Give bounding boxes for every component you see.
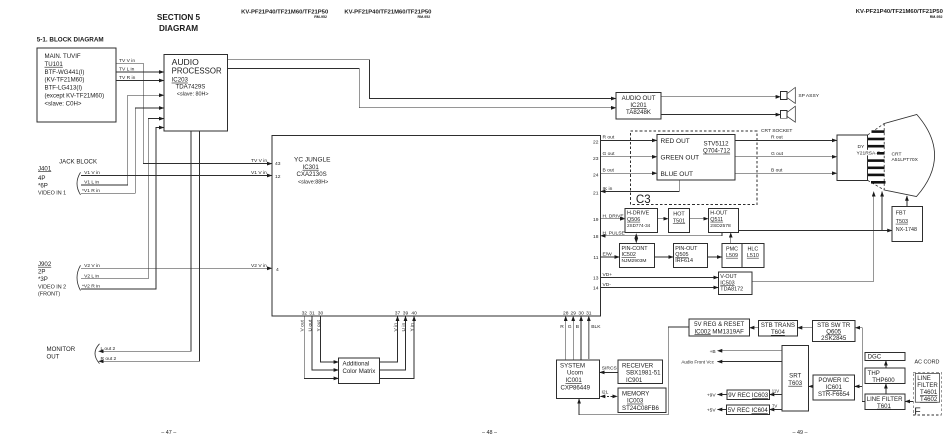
- deflection yoke DY box: [837, 135, 868, 181]
- wire R out 2 from audio processor: [99, 131, 200, 361]
- STB trans T604 box: [759, 320, 798, 335]
- svg-text:C3: C3: [636, 194, 651, 206]
- SRT T603 box: [782, 346, 809, 412]
- svg-text:<slave: C0H>: <slave: C0H>: [45, 100, 82, 107]
- svg-text:U out: U out: [307, 319, 313, 331]
- system Ucom IC001 box: [556, 360, 599, 399]
- svg-text:– 47 –: – 47 –: [161, 430, 176, 436]
- svg-text:TA8248K: TA8248K: [626, 109, 651, 116]
- svg-text:T4601: T4601: [920, 389, 938, 396]
- svg-text:H-DRIVE: H-DRIVE: [627, 211, 650, 217]
- wire H-DRIVE to HOT: [658, 218, 669, 220]
- svg-text:39: 39: [403, 311, 409, 317]
- 5V reg and reset IC002 box: [689, 319, 749, 336]
- wire B out to CRT: [735, 172, 837, 174]
- wire color matrix to Y in pin 40: [380, 316, 415, 378]
- wire BLK arrowhead: [588, 316, 590, 321]
- svg-text:31: 31: [309, 311, 315, 317]
- svg-text:PIN-CONT: PIN-CONT: [622, 246, 649, 252]
- THP box: [865, 368, 905, 384]
- svg-text:CRT: CRT: [892, 152, 902, 158]
- svg-text:G: G: [568, 324, 572, 330]
- svg-text:A51LPT70X: A51LPT70X: [892, 157, 919, 163]
- svg-text:Y out: Y out: [316, 320, 322, 332]
- wire STB trans to 5V reg: [749, 327, 758, 329]
- 5V regulator IC604 box: [726, 405, 769, 415]
- wire SRT +B: [717, 350, 782, 352]
- svg-text:G out: G out: [771, 151, 784, 157]
- svg-text:NX-1748: NX-1748: [896, 227, 917, 233]
- memory IC003 box: [618, 388, 666, 413]
- svg-text:F: F: [914, 405, 920, 417]
- svg-text:29: 29: [570, 310, 576, 316]
- svg-text:V1 V in: V1 V in: [251, 170, 267, 176]
- svg-text:IC203: IC203: [172, 77, 189, 84]
- svg-text:LINE: LINE: [917, 375, 931, 382]
- wire R out pin 22 to RED OUT: [601, 139, 658, 141]
- svg-text:IC002 MM1319AF: IC002 MM1319AF: [694, 328, 744, 335]
- wire V1 V in to YC pin 12: [81, 175, 272, 177]
- wire THP to DGC: [885, 361, 887, 369]
- V-OUT IC503 box: [718, 272, 752, 295]
- svg-text:MONITOR: MONITOR: [47, 346, 76, 353]
- wire VD+ pin 13 to V-OUT: [601, 277, 719, 279]
- svg-text:B: B: [576, 324, 579, 330]
- svg-text:T4602: T4602: [920, 396, 938, 403]
- wire E/W pin 11 to PIN-CONT: [601, 256, 620, 258]
- wire V1 R in to audio processor: [81, 108, 164, 193]
- svg-text:NJM2903M: NJM2903M: [622, 258, 647, 264]
- svg-text:37: 37: [395, 311, 401, 317]
- power IC IC601 box: [813, 375, 854, 400]
- svg-text:J902: J902: [38, 261, 52, 268]
- svg-text:AUDIO OUT: AUDIO OUT: [622, 95, 656, 102]
- wire TV L in to audio processor: [116, 71, 164, 73]
- svg-text:RECEIVER: RECEIVER: [622, 362, 654, 369]
- PIN-CONT IC502 box: [620, 244, 655, 268]
- wire 5V out: [717, 409, 726, 411]
- audio processor IC203 box: [164, 55, 228, 132]
- HLC L510 box: [742, 244, 764, 268]
- wire L out 2 from audio processor: [99, 131, 192, 351]
- svg-text:14: 14: [593, 286, 599, 292]
- connector J902 bracket: [77, 265, 81, 290]
- svg-text:Q511: Q511: [710, 217, 723, 223]
- svg-text:SBX1981-51: SBX1981-51: [626, 370, 661, 377]
- wire TV V in from tuner to YC pin 43: [116, 63, 272, 163]
- svg-text:13: 13: [593, 276, 599, 282]
- svg-text:BTF-LG413(I): BTF-LG413(I): [45, 85, 83, 92]
- svg-text:CXP86449: CXP86449: [561, 384, 591, 391]
- wire H-OUT to FBT: [738, 230, 892, 232]
- svg-text:*6P: *6P: [38, 182, 48, 189]
- svg-text:RM-952: RM-952: [418, 15, 431, 19]
- svg-text:9V REC IC603: 9V REC IC603: [728, 392, 769, 399]
- svg-text:J401: J401: [38, 165, 52, 172]
- svg-text:FILTER: FILTER: [917, 382, 938, 389]
- wire junction up to CRT from H-OUT line: [881, 192, 883, 231]
- svg-text:T604: T604: [771, 329, 786, 336]
- wire branch to power IC: [855, 385, 863, 387]
- svg-text:– 48 –: – 48 –: [482, 430, 497, 436]
- svg-text:THP: THP: [868, 370, 880, 377]
- svg-text:+9V: +9V: [707, 393, 717, 399]
- wire power IC to SRT: [809, 385, 814, 387]
- wire V out pin 32 to color matrix: [304, 316, 338, 378]
- svg-text:SECTION 5: SECTION 5: [157, 13, 201, 22]
- wire STB SW TR to STB trans: [797, 327, 812, 329]
- PMC L509 box: [722, 244, 742, 268]
- speaker 2: [781, 106, 796, 122]
- FBT T503 box: [892, 206, 923, 241]
- wire FBT to CRT: [906, 196, 908, 207]
- svg-text:H-OUT: H-OUT: [710, 211, 728, 217]
- svg-text:IC901: IC901: [626, 377, 643, 384]
- svg-text:21: 21: [593, 190, 599, 196]
- wire B from system to pin 30: [580, 316, 582, 360]
- svg-text:HOT: HOT: [673, 212, 685, 218]
- wire V2 R in to audio processor: [81, 128, 164, 290]
- svg-text:DY: DY: [858, 144, 866, 150]
- AC line filter inner box: [915, 374, 939, 403]
- svg-text:7V: 7V: [772, 404, 777, 409]
- wire H-DRIVE to PIN-CONT double arrow: [635, 234, 637, 243]
- CRT gun stripes: [868, 130, 886, 183]
- wire V2 L in to audio processor: [81, 119, 164, 279]
- HOT T501 box: [668, 209, 689, 233]
- wire U out pin 31 to color matrix: [312, 316, 339, 370]
- wire SRT to 5V reg IC604: [769, 409, 782, 411]
- svg-text:DGC: DGC: [868, 354, 882, 361]
- wire color matrix to U in pin 39: [380, 316, 406, 370]
- wire SRT to 9V reg: [769, 394, 782, 396]
- svg-text:IC502: IC502: [622, 252, 636, 258]
- svg-text:11V: 11V: [772, 389, 779, 394]
- wire V1 L in to audio processor: [81, 95, 164, 185]
- RGB out block Q704-712 box: [657, 135, 735, 180]
- svg-text:30: 30: [578, 310, 584, 316]
- svg-text:DIAGRAM: DIAGRAM: [159, 24, 198, 33]
- wire memory to system dashed double arrow: [600, 395, 617, 397]
- wire audio processor to audio out R: [228, 69, 617, 108]
- svg-text:POWER IC: POWER IC: [818, 377, 849, 384]
- svg-text:Audio Front Vcc: Audio Front Vcc: [681, 360, 714, 365]
- svg-text:PIN-OUT: PIN-OUT: [675, 246, 698, 252]
- YC jungle IC301 box: [272, 136, 601, 317]
- svg-text:43: 43: [275, 161, 281, 167]
- wire H drive pin 19 to H-DRIVE block: [601, 218, 626, 220]
- svg-text:AC CORD: AC CORD: [915, 360, 940, 366]
- svg-text:Q704-712: Q704-712: [703, 148, 731, 155]
- svg-text:2P: 2P: [38, 268, 45, 275]
- svg-text:T503: T503: [896, 219, 908, 225]
- svg-text:BLK: BLK: [591, 324, 601, 330]
- svg-text:FBT: FBT: [896, 211, 907, 217]
- svg-text:JACK BLOCK: JACK BLOCK: [59, 158, 97, 165]
- svg-text:<slave:88H>: <slave:88H>: [298, 179, 328, 185]
- svg-text:IRF614: IRF614: [675, 258, 693, 264]
- wire V-OUT to CRT deflection: [752, 192, 874, 282]
- wire G out to CRT: [735, 156, 837, 158]
- svg-text:RED OUT: RED OUT: [661, 138, 690, 145]
- svg-text:12: 12: [275, 174, 281, 180]
- svg-text:IC201: IC201: [630, 102, 647, 109]
- svg-text:5V REC IC604: 5V REC IC604: [728, 407, 769, 414]
- wire line filter to THP: [885, 384, 887, 394]
- AC cord dashed box: [913, 372, 941, 415]
- svg-text:OUT: OUT: [47, 353, 60, 360]
- svg-text:T601: T601: [877, 403, 892, 410]
- svg-text:R out: R out: [603, 135, 615, 141]
- svg-text:CXA2130S: CXA2130S: [297, 171, 327, 178]
- svg-text:PMC: PMC: [726, 246, 738, 252]
- svg-text:STV5112: STV5112: [704, 141, 730, 148]
- wire B out pin 24 to BLUE OUT: [601, 172, 658, 174]
- svg-text:31: 31: [586, 310, 592, 316]
- wire color matrix to V in pin 37: [380, 316, 398, 362]
- svg-text:IC001: IC001: [566, 377, 583, 384]
- svg-text:R out: R out: [771, 135, 783, 141]
- svg-text:30: 30: [318, 311, 324, 317]
- wire audio out to speaker 1: [661, 96, 781, 98]
- svg-text:+B: +B: [710, 349, 716, 355]
- svg-text:MEMORY: MEMORY: [622, 390, 649, 397]
- speaker 1: [781, 87, 796, 103]
- wire IK in from RGB out block to pin 21: [601, 180, 680, 192]
- svg-text:I2L: I2L: [602, 390, 609, 396]
- svg-text:SIRCS: SIRCS: [602, 366, 618, 372]
- wire V2 V in to YC pin 4: [81, 267, 272, 269]
- svg-text:HLC: HLC: [748, 246, 759, 252]
- svg-text:24: 24: [593, 172, 599, 178]
- svg-text:Y21RSA-S: Y21RSA-S: [857, 151, 881, 157]
- svg-text:TV V in: TV V in: [251, 158, 267, 164]
- svg-text:R: R: [560, 324, 564, 330]
- wire line filter to STB SW TR: [855, 328, 865, 402]
- svg-text:IC301: IC301: [303, 164, 320, 171]
- CRT socket dashed box: [631, 131, 758, 205]
- svg-text:BLUE OUT: BLUE OUT: [661, 171, 694, 178]
- svg-text:YC JUNGLE: YC JUNGLE: [294, 157, 331, 164]
- svg-text:SYSTEM: SYSTEM: [560, 362, 585, 369]
- svg-text:V-OUT: V-OUT: [720, 274, 737, 280]
- svg-text:THP600: THP600: [872, 377, 895, 384]
- wire VD- pin 14 to V-OUT: [601, 287, 719, 289]
- CRT bell outline: [884, 115, 934, 197]
- svg-text:MAIN. TUVIF: MAIN. TUVIF: [45, 53, 81, 60]
- wire audio processor to audio out L: [228, 60, 617, 99]
- svg-text:5V REG & RESET: 5V REG & RESET: [694, 321, 744, 328]
- svg-text:G out: G out: [603, 151, 616, 157]
- svg-text:L510: L510: [747, 253, 759, 259]
- wire audio out to speaker 2: [661, 114, 781, 116]
- wire 5V reg to system supply: [579, 327, 689, 415]
- tuner TU101 box: [37, 48, 116, 122]
- H-OUT Q511 box: [708, 209, 738, 233]
- svg-text:VIDEO IN 2: VIDEO IN 2: [38, 285, 66, 291]
- svg-text:ST24C08FB6: ST24C08FB6: [622, 405, 660, 412]
- svg-text:5-1. BLOCK DIAGRAM: 5-1. BLOCK DIAGRAM: [37, 37, 104, 44]
- connector J401 bracket: [77, 172, 81, 195]
- wire H pulse from H-OUT to pin 18: [601, 233, 723, 236]
- svg-text:(FRONT): (FRONT): [38, 292, 60, 298]
- svg-text:IC601: IC601: [826, 384, 843, 391]
- svg-text:– 49 –: – 49 –: [793, 430, 808, 436]
- svg-text:23: 23: [593, 156, 599, 162]
- CRT neck dashed outline: [868, 124, 885, 191]
- svg-text:CRT SOCKET: CRT SOCKET: [761, 128, 792, 134]
- svg-text:GREEN OUT: GREEN OUT: [661, 154, 700, 161]
- svg-text:Q505: Q505: [675, 252, 688, 258]
- svg-text:SP ASSY: SP ASSY: [798, 93, 819, 99]
- svg-text:22: 22: [593, 140, 599, 146]
- wire receiver to system: [600, 371, 619, 373]
- svg-text:STR-F6654: STR-F6654: [818, 391, 850, 398]
- svg-text:(KV-TF21M60): (KV-TF21M60): [45, 77, 85, 84]
- additional color matrix box: [339, 358, 380, 384]
- svg-text:Q506: Q506: [627, 217, 640, 223]
- svg-text:40: 40: [411, 311, 417, 317]
- wire PIN-OUT to PMC: [708, 256, 722, 258]
- PIN-OUT Q505 box: [673, 244, 707, 268]
- 9V regulator IC603 box: [727, 390, 769, 400]
- svg-text:2SK2845: 2SK2845: [821, 335, 847, 342]
- svg-text:19: 19: [593, 217, 599, 223]
- svg-text:28: 28: [563, 310, 569, 316]
- svg-text:2SD774-34: 2SD774-34: [627, 223, 651, 228]
- svg-text:L509: L509: [726, 253, 738, 259]
- wire G out pin 23 to GREEN OUT: [601, 156, 658, 158]
- svg-text:+5V: +5V: [707, 408, 717, 414]
- STB SW TR Q605 box: [812, 320, 855, 341]
- wire R out to CRT: [735, 139, 837, 141]
- wire G from system to pin 29: [572, 316, 574, 360]
- svg-text:IC503: IC503: [720, 280, 734, 286]
- label DY halo: [856, 150, 878, 156]
- svg-text:18: 18: [593, 234, 599, 240]
- svg-text:U in: U in: [401, 323, 407, 332]
- wire SRT audio front vcc: [717, 361, 782, 363]
- wire PIN-CONT to PIN-OUT: [655, 256, 674, 258]
- monitor out bracket: [95, 344, 100, 364]
- svg-text:11: 11: [593, 255, 598, 261]
- svg-text:IC003: IC003: [627, 398, 644, 405]
- svg-text:(except KV-TF21M60): (except KV-TF21M60): [45, 93, 105, 100]
- wire AC cord to line filter: [905, 400, 913, 402]
- wire 9V out: [717, 394, 727, 396]
- receiver IC901 box: [618, 360, 662, 384]
- svg-text:VIDEO IN 1: VIDEO IN 1: [38, 191, 66, 197]
- line filter T601 box: [865, 394, 905, 410]
- svg-text:V out: V out: [300, 319, 306, 331]
- svg-text:<slave: 80H>: <slave: 80H>: [177, 91, 209, 97]
- audio out IC201 box: [616, 93, 661, 120]
- svg-text:*3P: *3P: [38, 276, 48, 283]
- svg-text:2SD2578: 2SD2578: [710, 223, 731, 229]
- wire R from system to pin 28: [565, 316, 567, 360]
- svg-text:B out: B out: [771, 168, 783, 174]
- H-DRIVE Q506 box: [625, 209, 658, 233]
- wire TV R in to audio processor: [116, 80, 164, 82]
- wire Y out pin 30 to color matrix: [321, 316, 339, 362]
- svg-text:T603: T603: [788, 380, 803, 387]
- wire HOT to H-OUT: [690, 218, 709, 220]
- wire BLK from system to pin 31 (gray): [588, 320, 590, 359]
- svg-text:Ucom: Ucom: [567, 370, 583, 377]
- svg-text:TU101: TU101: [45, 61, 64, 68]
- svg-text:V2 V in: V2 V in: [251, 263, 267, 269]
- svg-text:SRT: SRT: [789, 373, 801, 380]
- svg-text:RM-952: RM-952: [930, 15, 943, 19]
- svg-text:32: 32: [302, 311, 308, 317]
- svg-text:Additional: Additional: [343, 361, 370, 368]
- svg-text:T501: T501: [673, 218, 685, 224]
- svg-text:4P: 4P: [38, 175, 45, 182]
- wire PMC to H-OUT: [730, 233, 732, 244]
- svg-text:4: 4: [276, 267, 279, 273]
- svg-text:Color Matrix: Color Matrix: [343, 368, 376, 375]
- svg-text:PROCESSOR: PROCESSOR: [172, 66, 222, 76]
- svg-text:RM-952: RM-952: [314, 15, 327, 19]
- svg-text:BTF-WG441(I): BTF-WG441(I): [45, 69, 85, 76]
- svg-text:TDA8172: TDA8172: [720, 287, 743, 293]
- DGC box: [865, 352, 905, 360]
- svg-text:TDA7429S: TDA7429S: [176, 84, 206, 91]
- svg-text:B out: B out: [603, 168, 615, 174]
